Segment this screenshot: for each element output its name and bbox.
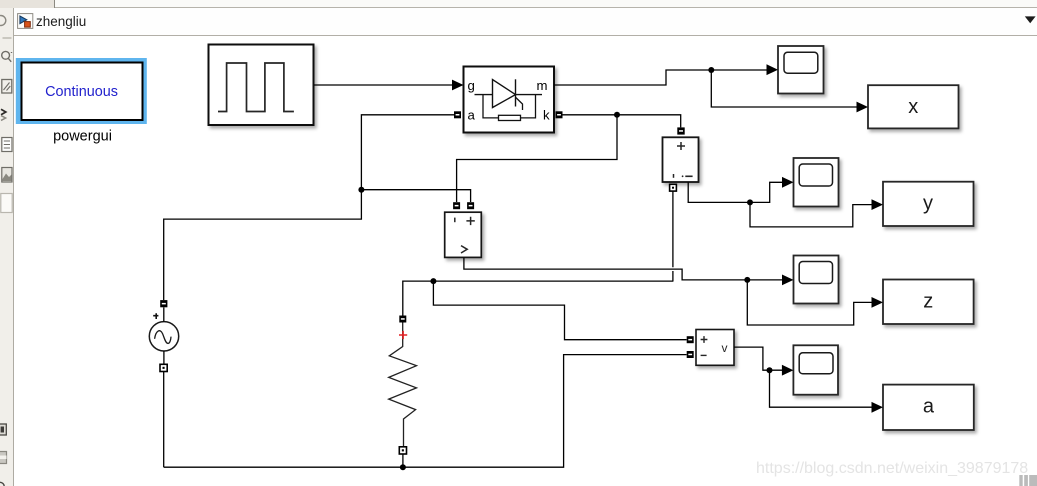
wire pulse to gate bbox=[314, 84, 453, 86]
V1 left input port bbox=[453, 202, 460, 209]
output block x bbox=[868, 85, 959, 128]
wire bottom rail to V3 minus bbox=[164, 355, 687, 468]
wire node Y to block y bbox=[750, 202, 872, 227]
top beige strip bbox=[0, 0, 1037, 8]
scope S4 bbox=[793, 345, 838, 394]
node Z junction bbox=[744, 277, 750, 283]
node A junction bbox=[358, 187, 364, 193]
powergui block U1 (selected) bbox=[16, 58, 147, 124]
output block y bbox=[883, 182, 974, 226]
AC source plus port bbox=[160, 300, 167, 307]
V2 top input port bbox=[677, 127, 684, 134]
toolbar icon: region box bbox=[2, 80, 12, 94]
svg-text:Continuous: Continuous bbox=[45, 84, 118, 100]
toolbar icon: half circle bbox=[0, 16, 6, 26]
arrowhead into scope S1 bbox=[767, 64, 779, 75]
node K junction bbox=[614, 112, 620, 118]
toolbar icon: double chevrons bbox=[1, 109, 6, 120]
svg-text:k: k bbox=[543, 108, 550, 123]
toolbar icon: magnifier bbox=[2, 51, 12, 61]
thyristor a input port bbox=[454, 111, 461, 118]
wire node V to block a bbox=[770, 370, 873, 407]
node R junction bbox=[430, 278, 436, 284]
thyristor U2 bbox=[464, 67, 555, 133]
toolbar icon: bottom camera bbox=[0, 424, 6, 435]
resistor R1 bbox=[389, 323, 417, 447]
voltage measurement V2 (rotated) bbox=[663, 137, 699, 182]
arrowhead into block z bbox=[872, 297, 884, 308]
wire resistor bottom to node B bbox=[402, 454, 404, 467]
watermark bars bbox=[1019, 475, 1037, 486]
output block a bbox=[883, 385, 974, 430]
toolbar icon: blank button bbox=[1, 194, 12, 213]
node V junction bbox=[767, 367, 773, 373]
model title bar bbox=[14, 8, 1037, 36]
svg-text:m: m bbox=[537, 78, 548, 93]
arrowhead into block y bbox=[872, 199, 884, 210]
arrowhead into thyristor gate bbox=[452, 80, 464, 91]
wire m output to node M bbox=[554, 70, 767, 85]
svg-text:y: y bbox=[923, 193, 933, 215]
voltage measurement V3 bbox=[696, 330, 734, 366]
arrowhead into scope S2 bbox=[782, 177, 794, 188]
V3 minus input port bbox=[687, 351, 694, 358]
thyristor k output port bbox=[556, 111, 563, 118]
wire resistor top to node R bbox=[403, 281, 674, 316]
svg-text:https://blog.csdn.net/weixin_3: https://blog.csdn.net/weixin_39879178 bbox=[756, 460, 1028, 477]
node M junction bbox=[708, 67, 714, 73]
svg-text:g: g bbox=[468, 78, 475, 93]
arrowhead into scope S3 bbox=[782, 275, 794, 286]
svg-text:x: x bbox=[908, 96, 918, 118]
wire V2 output to node Y bbox=[688, 182, 782, 202]
wire node M to block x bbox=[711, 70, 857, 107]
wire AC source minus down bbox=[163, 372, 165, 468]
wire V1 output to node Z bbox=[464, 258, 783, 280]
AC voltage source G1 bbox=[149, 307, 178, 364]
voltage measurement V1 (rotated) bbox=[445, 212, 482, 257]
toolbar separator bbox=[3, 37, 12, 39]
svg-text:powergui: powergui bbox=[53, 128, 112, 144]
output block z bbox=[883, 280, 974, 325]
scope S3 bbox=[794, 256, 839, 304]
wire node K to V1 left port bbox=[457, 115, 617, 202]
arrowhead into block x bbox=[857, 102, 869, 113]
svg-text:a: a bbox=[923, 396, 935, 418]
dropdown arrow bbox=[1025, 16, 1036, 23]
wire node Z to block z bbox=[747, 280, 872, 325]
wire V2 minus down (crossover gap) bbox=[672, 191, 674, 281]
arrowhead into block a bbox=[872, 402, 884, 413]
pulse generator P1 bbox=[209, 45, 314, 126]
resistor top port bbox=[399, 316, 406, 323]
title text zhengliu bbox=[36, 14, 86, 29]
AC source minus port bbox=[160, 364, 167, 371]
toolbar icon: bottom partial circle bbox=[0, 482, 4, 486]
svg-text:v: v bbox=[722, 341, 728, 355]
V2 bottom port bbox=[670, 184, 677, 191]
wire node R to V3 plus bbox=[433, 281, 686, 340]
active tab remnant bbox=[0, 0, 55, 8]
toolbar icon: picture bbox=[2, 168, 12, 183]
arrowhead into scope S4 bbox=[782, 365, 794, 376]
svg-text:z: z bbox=[923, 291, 933, 313]
node Y junction bbox=[747, 199, 753, 205]
V3 plus input port bbox=[687, 336, 694, 343]
resistor bottom port bbox=[399, 447, 406, 454]
wire node A to V1 right port bbox=[361, 190, 470, 202]
left toolbar strip bbox=[0, 8, 14, 486]
wire k output to node K bbox=[563, 115, 681, 128]
V1 right input port bbox=[467, 202, 474, 209]
model badge icon bbox=[18, 14, 33, 29]
scope S1 bbox=[778, 46, 824, 94]
scope S2 bbox=[794, 158, 839, 207]
svg-text:a: a bbox=[468, 108, 476, 123]
node B junction bbox=[400, 464, 406, 470]
wire a port to node A to AC source plus bbox=[164, 115, 454, 300]
toolbar icon: bottom bands bbox=[0, 452, 7, 464]
toolbar icon: list bbox=[2, 138, 12, 152]
wire V3 output to node V bbox=[734, 347, 782, 370]
